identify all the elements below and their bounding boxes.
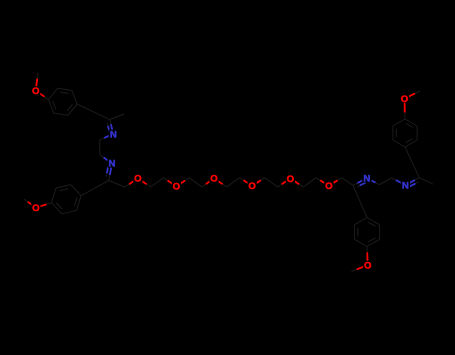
N-CH2 bond (right bridge) [367,178,380,184]
benzene ring B (left 4-methoxyphenyl) [52,185,82,214]
svg-text:N: N [109,159,116,170]
svg-text:O: O [325,181,333,192]
svg-text:O: O [401,94,409,105]
C_b-CH2 bond (chain start) [109,181,125,188]
wire ring A to CH [77,104,93,112]
O1-CH2 bond [138,178,151,187]
wire C_d to CH (ring C link) [412,162,419,177]
atom label N (N_r2) [401,181,410,192]
methyl C-O bond (top-left methoxy) [36,73,38,91]
O-methyl bond (top-right methoxy) [405,91,421,99]
N-CH2 bond (left bridge) [100,134,114,140]
svg-text:O: O [364,260,372,271]
CH2-O5 bond [278,178,291,187]
O-aryl bond (top-left methoxy) [36,91,49,100]
svg-text:O: O [134,174,142,185]
wire CH to ring C [405,147,412,162]
aryl-O bond (bottom-right methoxy) [366,247,369,266]
benzene ring C (top-right 4-methoxyphenyl) [393,119,417,147]
CH2-C_a bond (chain end) [342,178,353,186]
atom label N (N_r1) [362,174,371,185]
O-methyl bond (bottom-right methoxy) [352,265,368,272]
CH2-CH2 bond [303,178,316,187]
CH2-CH2 bond [227,178,240,187]
CH2-O1 bond [125,178,138,187]
N=C imine double bond (right second) [405,178,419,187]
C=N imine double bond (left top) [107,120,113,134]
aryl-O bond (left methoxy) [36,203,52,208]
svg-text:O: O [173,182,181,193]
O-methyl bond (left methoxy) [24,199,36,208]
O6-CH2 bond [329,178,342,186]
CH2-CH2 bond [265,178,278,187]
C=N imine double bond (right first) [353,178,367,187]
svg-text:O: O [210,174,218,185]
svg-text:N: N [363,174,370,185]
aryl-O bond (top-right methoxy) [404,99,407,120]
wire C_a to CH (ring D link) [353,185,360,201]
atom label O (O3) [209,174,218,185]
CH2-O4 bond [239,178,252,186]
CH2-O6 bond [316,178,329,186]
svg-text:N: N [110,129,117,140]
svg-text:O: O [32,86,40,97]
atom label O (O2) [172,182,181,193]
atom label N (N_bot) [107,159,116,170]
O2-CH2 bond [176,178,189,187]
atom label O (O5) [286,174,295,185]
O5-CH2 bond [290,178,303,187]
O4-CH2 bond [252,178,265,186]
wire CH to imine carbon C_top [94,112,110,120]
CH2-O3 bond [202,178,214,187]
atom label O (O6) [324,181,333,192]
benzene ring A (top-left 4-methoxyphenyl) [49,88,78,115]
svg-text:O: O [248,181,256,192]
CH2-CH2 bond [151,178,164,187]
atom label O (O_D) [363,260,372,271]
CH2-N bond (right bridge) [392,178,406,185]
methyl on C_d [419,178,433,185]
atom label N (N_top) [109,129,118,140]
CH2-CH2 bridge bond (left) [99,140,101,155]
atom label O (O_C) [400,94,409,105]
svg-text:O: O [32,203,40,214]
CH2-CH2 bond [189,178,202,187]
atom label O (O_B) [31,203,40,214]
atom label O (O4) [248,181,257,192]
svg-text:N: N [402,181,409,192]
wire CH to ring B [81,188,95,196]
methyl on C_top [110,114,124,120]
wire CH to ring D [360,201,367,217]
svg-text:O: O [287,174,295,185]
O3-CH2 bond [214,178,227,187]
CH2-CH2 bridge bond (right) [380,178,392,185]
CH2-O2 bond [164,178,177,187]
atom label O (O_A) [31,86,40,97]
atom label O (O1) [133,174,142,185]
CH2-N bond (left bridge) [100,155,112,164]
benzene ring D (bottom-right 4-methoxyphenyl) [354,218,379,247]
wire C_b to CH (ring B link) [95,181,109,189]
N=C imine double bond (left bottom) [106,163,112,180]
